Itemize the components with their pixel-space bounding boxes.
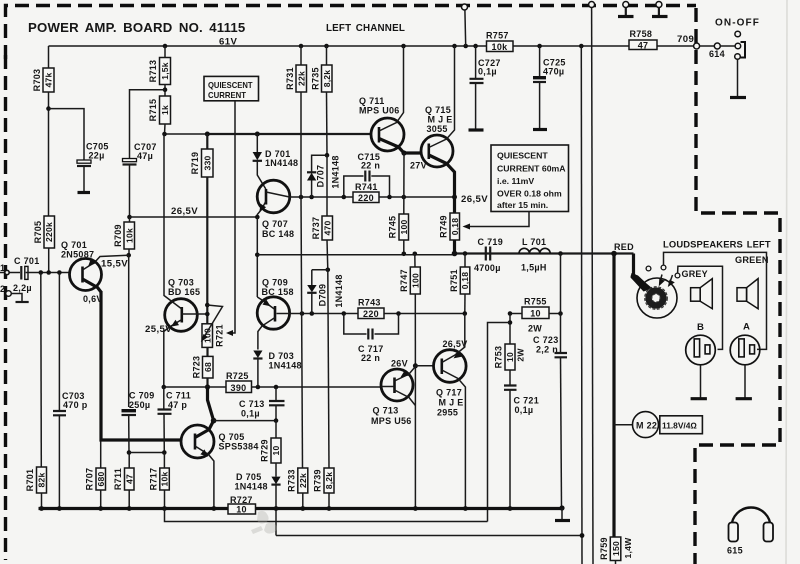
svg-text:R703: R703 <box>32 69 42 92</box>
svg-text:27V: 27V <box>410 161 427 171</box>
svg-text:R717: R717 <box>149 468 159 491</box>
dashed panel divider right <box>695 8 780 564</box>
node R755 right C723 column <box>558 311 563 316</box>
terminal 709 on divider <box>694 43 700 49</box>
transistor Q713 <box>371 367 415 427</box>
node rail C703 <box>57 506 62 511</box>
svg-text:1N4148: 1N4148 <box>334 274 344 307</box>
svg-text:Q 707: Q 707 <box>262 219 288 229</box>
resistor R719 <box>190 134 213 177</box>
node y313 C717 left <box>342 311 347 316</box>
wire emitter node down to R745 <box>403 153 405 214</box>
wire Q709 base y313 <box>277 313 344 315</box>
svg-text:C 701: C 701 <box>14 256 40 266</box>
svg-text:BC 148: BC 148 <box>262 229 294 239</box>
svg-text:C 709: C 709 <box>129 391 155 401</box>
svg-text:D707: D707 <box>316 165 326 188</box>
svg-text:D709: D709 <box>318 284 328 307</box>
svg-text:68: 68 <box>203 362 213 372</box>
capacitor C719 <box>474 237 503 273</box>
connector plug arrow <box>631 273 653 292</box>
diode D703 <box>253 351 302 388</box>
svg-text:2955: 2955 <box>437 408 458 418</box>
svg-text:R725: R725 <box>226 371 249 381</box>
svg-text:390: 390 <box>231 383 247 393</box>
border frame dashed left <box>4 55 7 560</box>
svg-text:Q 709: Q 709 <box>262 278 288 288</box>
svg-text:R713: R713 <box>148 60 158 83</box>
node R703 C705 tap <box>46 106 51 111</box>
resistor R751 <box>449 254 470 314</box>
node y197 C715 left <box>342 195 347 200</box>
svg-text:Q 711: Q 711 <box>359 96 385 106</box>
wire C723 column down <box>560 254 562 353</box>
resistor R709 <box>113 222 135 249</box>
svg-text:8,2k: 8,2k <box>322 70 332 88</box>
svg-text:22 n: 22 n <box>361 161 380 171</box>
svg-text:ON-OFF: ON-OFF <box>715 18 760 29</box>
node C709 R711 bridge <box>127 450 132 455</box>
svg-text:22µ: 22µ <box>89 151 105 161</box>
svg-text:R733: R733 <box>287 469 297 492</box>
capacitor C709 <box>122 391 155 453</box>
node rail top terminal <box>463 44 468 49</box>
svg-text:D 703: D 703 <box>269 351 295 361</box>
capacitor C701 <box>13 256 40 293</box>
svg-text:CURRENT 60mA: CURRENT 60mA <box>497 164 566 174</box>
node output C723 column <box>558 251 563 256</box>
node y313 C717 right <box>396 311 401 316</box>
resistor R743 <box>344 298 465 319</box>
svg-text:R755: R755 <box>524 297 547 307</box>
svg-text:after 15 min.: after 15 min. <box>497 200 548 210</box>
svg-text:R747: R747 <box>399 269 409 292</box>
svg-text:22 n: 22 n <box>361 353 380 363</box>
svg-text:1,4W: 1,4W <box>623 537 633 559</box>
diode D709 <box>307 270 344 314</box>
svg-text:L 701: L 701 <box>522 237 546 247</box>
svg-text:47: 47 <box>124 474 134 484</box>
resistor R701 <box>25 273 47 509</box>
svg-text:LEFT CHANNEL: LEFT CHANNEL <box>326 23 405 34</box>
transistor Q701 <box>61 240 102 292</box>
node y197 D707 <box>309 195 314 200</box>
resistor R735 <box>311 46 333 155</box>
svg-text:1N4148: 1N4148 <box>269 361 302 371</box>
resistor R729 <box>260 421 282 463</box>
svg-text:R701: R701 <box>25 469 35 492</box>
resistor R705 <box>33 216 55 248</box>
svg-text:470: 470 <box>322 221 332 236</box>
node rail Q717 column <box>463 506 468 511</box>
resistor R759 <box>599 537 633 564</box>
node output RED takeoff <box>611 251 617 257</box>
svg-text:150: 150 <box>611 541 621 556</box>
diode D707 <box>307 155 341 197</box>
wire 26,5V to Q707 emitter column <box>130 216 258 218</box>
wire C701 to Q701 base <box>26 272 70 274</box>
wire Q707 emitter column down <box>256 217 258 297</box>
inductor L701 <box>519 237 550 273</box>
svg-text:R751: R751 <box>449 269 459 292</box>
wire emitter node down C709 column <box>128 255 130 407</box>
wire output line y254 <box>257 254 455 255</box>
node R709 Q701 emitter <box>126 253 131 258</box>
node rail R711 <box>127 506 132 511</box>
node R721 wiper tap <box>205 303 210 308</box>
node R723 wire387 thick <box>205 384 210 389</box>
svg-text:470 p: 470 p <box>63 400 88 410</box>
svg-text:11.8V/4Ω: 11.8V/4Ω <box>662 421 697 431</box>
svg-text:1N4148: 1N4148 <box>331 155 341 188</box>
node Q707 emitter 26,5V wire <box>255 215 260 220</box>
svg-text:R737: R737 <box>311 217 321 240</box>
resistor R737 <box>311 155 333 270</box>
wire Q711 emitter to Q715 base thick <box>404 151 421 154</box>
svg-text:2W: 2W <box>516 348 526 362</box>
node Q705 collector bias tap <box>211 418 217 424</box>
node rail R701 <box>39 506 44 511</box>
transistor Q707 <box>257 180 294 239</box>
wire GREY to jack B <box>678 266 723 349</box>
svg-text:615: 615 <box>727 546 743 556</box>
svg-text:Q 713: Q 713 <box>373 406 399 416</box>
svg-text:250µ: 250µ <box>129 400 150 410</box>
svg-text:8,2k: 8,2k <box>324 472 334 490</box>
ground rail end symbol <box>555 505 570 520</box>
svg-text:0,18: 0,18 <box>450 218 460 236</box>
capacitor C715 <box>344 152 390 197</box>
svg-text:R741: R741 <box>355 182 378 192</box>
svg-text:3055: 3055 <box>427 124 448 134</box>
resistor R749 <box>439 213 461 254</box>
wire R713 to R715 <box>164 85 166 97</box>
resistor R707 <box>85 442 106 509</box>
svg-text:26V: 26V <box>391 359 408 369</box>
node rail Q705 emitter <box>212 506 217 511</box>
wire Q713 column to rail <box>414 366 416 509</box>
svg-text:C 721: C 721 <box>514 396 540 406</box>
svg-text:QUIESCENT: QUIESCENT <box>497 151 548 161</box>
svg-text:i.e. 11mV: i.e. 11mV <box>497 176 534 186</box>
wire R709 to emitter node <box>128 249 130 255</box>
node R753 tap to feedback <box>508 320 513 325</box>
wire C705 tap <box>49 109 85 160</box>
svg-text:Q 715: Q 715 <box>425 105 451 115</box>
transistor Q711 <box>359 46 404 153</box>
svg-text:10k: 10k <box>492 42 509 52</box>
svg-text:47k: 47k <box>44 73 54 88</box>
wire terminal to rail <box>464 10 467 46</box>
node input R705 <box>46 270 51 275</box>
node y313 R751 Q717 emitter <box>463 311 468 316</box>
svg-text:100: 100 <box>399 220 409 235</box>
capacitor C713 <box>239 387 285 421</box>
node base line D701 <box>255 132 260 137</box>
wire GREEN to jack A <box>664 252 767 349</box>
svg-text:2,2µ: 2,2µ <box>13 283 32 293</box>
wire base line y134 <box>165 133 208 135</box>
resistor R703 <box>32 68 54 92</box>
wire note pointer to R749 <box>465 212 529 227</box>
wire line2 feedback return y521 <box>165 509 488 522</box>
resistor R721 trimmer <box>201 305 225 347</box>
svg-text:0,1µ: 0,1µ <box>241 409 260 419</box>
box QUIESCENT CURRENT 60mA note <box>491 145 569 212</box>
capacitor C717 <box>344 314 399 364</box>
svg-text:2: 2 <box>0 284 5 294</box>
transistor Q717 <box>434 314 467 509</box>
svg-text:R723: R723 <box>192 356 202 379</box>
svg-text:R709: R709 <box>113 224 123 247</box>
svg-text:1,5k: 1,5k <box>160 62 170 80</box>
svg-text:Q 703: Q 703 <box>168 278 194 288</box>
svg-text:LOUDSPEAKERS LEFT: LOUDSPEAKERS LEFT <box>663 239 771 250</box>
svg-text:0,1µ: 0,1µ <box>515 405 534 415</box>
headphone jack 615 <box>727 508 773 556</box>
node output R751 <box>463 251 468 256</box>
wire Q701 emitter lead <box>95 255 129 262</box>
svg-text:R745: R745 <box>388 216 398 239</box>
pencil smudge artifacts <box>251 511 277 534</box>
svg-text:QUIESCENT: QUIESCENT <box>208 80 253 90</box>
svg-text:R719: R719 <box>190 152 200 175</box>
node output R745 <box>402 252 407 257</box>
svg-text:Q 701: Q 701 <box>61 240 87 250</box>
node rail R713 <box>163 44 168 49</box>
svg-text:OVER 0.18 ohm: OVER 0.18 ohm <box>497 189 562 199</box>
node rail C727 <box>473 44 478 49</box>
svg-text:R743: R743 <box>358 298 381 308</box>
resistor R739 <box>313 468 335 509</box>
capacitor C725 <box>533 46 566 130</box>
wire 709 to 614 <box>700 45 715 47</box>
capacitor C723 <box>533 335 567 507</box>
svg-text:47µ: 47µ <box>137 151 153 161</box>
node y197 R745 column <box>402 195 407 200</box>
svg-text:R757: R757 <box>486 31 509 41</box>
wire rail to R713 <box>164 46 166 58</box>
svg-text:709: 709 <box>677 34 694 45</box>
node output R749 thick <box>452 251 458 257</box>
svg-text:M J E: M J E <box>428 115 453 125</box>
node rail C725 <box>537 44 542 49</box>
node rail D705 <box>274 506 279 511</box>
resistor R733 <box>287 468 309 509</box>
svg-text:R758: R758 <box>630 29 653 39</box>
capacitor C703 <box>53 273 88 509</box>
svg-text:100: 100 <box>411 273 421 288</box>
svg-text:680: 680 <box>96 472 106 487</box>
resistor R727 <box>228 495 256 515</box>
svg-text:R711: R711 <box>113 468 123 490</box>
svg-text:10k: 10k <box>160 472 170 487</box>
node input R701 <box>39 270 44 275</box>
svg-text:CURRENT: CURRENT <box>208 90 247 100</box>
node Q703 base column <box>205 312 210 317</box>
node wire387 C713 <box>274 385 279 390</box>
wire R737 column down to R739 <box>328 270 329 468</box>
wire387 left segment <box>164 386 226 388</box>
svg-text:10: 10 <box>271 446 281 456</box>
node C707 R709 26,5V <box>127 215 132 220</box>
node y197 R749 column <box>452 195 457 200</box>
node output R747 <box>413 252 418 257</box>
resistor R717 <box>149 453 170 509</box>
node rail C721 <box>508 506 513 511</box>
terminal on top border <box>462 4 468 10</box>
capacitor C721 <box>504 386 539 509</box>
capacitor C707 <box>123 142 157 217</box>
speaker icon B <box>691 279 713 309</box>
svg-text:RED: RED <box>614 242 634 252</box>
svg-text:10: 10 <box>530 309 541 319</box>
connector terminal pins <box>646 266 651 271</box>
node rail R735 <box>324 44 329 49</box>
capacitor C711 <box>158 387 192 453</box>
node rail Q713 column <box>413 506 418 511</box>
resistor R715 <box>148 96 171 124</box>
svg-text:1N4148: 1N4148 <box>265 158 298 168</box>
svg-text:Q 705: Q 705 <box>219 432 245 442</box>
wire bridge R711 to R717 <box>129 452 164 454</box>
wire terminal feed down x593 <box>592 8 593 564</box>
wire input from border <box>0 272 20 274</box>
svg-text:R707: R707 <box>85 468 95 491</box>
svg-text:R753: R753 <box>494 346 504 369</box>
svg-text:22k: 22k <box>298 473 308 488</box>
svg-text:10: 10 <box>236 505 247 515</box>
svg-text:4700µ: 4700µ <box>474 263 501 273</box>
resistor R755 <box>510 297 561 334</box>
terminal on border x626 with ground stub <box>618 2 634 17</box>
transistor Q715 <box>421 46 455 213</box>
svg-text:470µ: 470µ <box>543 67 564 77</box>
wire collector line y197 <box>290 196 344 198</box>
svg-text:R749: R749 <box>439 215 449 238</box>
wire rail to terminal 709 <box>657 45 694 47</box>
wire bias tap to C713 bottom <box>214 420 276 422</box>
svg-text:C 723: C 723 <box>533 335 559 345</box>
resistor R741 <box>344 182 455 203</box>
resistor R731 <box>285 46 307 197</box>
svg-text:M J E: M J E <box>439 398 464 408</box>
node emitter column output wire <box>255 253 260 258</box>
svg-text:25,5V: 25,5V <box>145 324 172 335</box>
svg-text:C 713: C 713 <box>239 399 265 409</box>
wire tap to x487 column <box>488 323 511 522</box>
svg-text:26,5V: 26,5V <box>461 194 488 205</box>
svg-text:82k: 82k <box>37 473 47 488</box>
wire 61V feed down x582 <box>580 46 583 564</box>
svg-text:0,1µ: 0,1µ <box>478 67 497 77</box>
jack socket B <box>686 335 716 399</box>
resistor R725 <box>226 371 382 393</box>
resistor R711 <box>113 453 134 509</box>
resistor R758 <box>629 29 657 50</box>
box QUIESCENT CURRENT label <box>204 76 259 100</box>
svg-text:R731: R731 <box>285 67 295 90</box>
node rail R731 <box>299 44 304 49</box>
terminal on border x592 <box>589 2 595 8</box>
node rail R717 line2 <box>162 506 167 511</box>
node Q717 base wire <box>413 363 418 368</box>
svg-text:1k: 1k <box>160 105 170 115</box>
svg-text:GREEN: GREEN <box>735 255 769 265</box>
svg-text:C 711: C 711 <box>166 391 191 401</box>
svg-text:26,5V: 26,5V <box>171 206 198 217</box>
transistor Q705 <box>181 421 259 509</box>
wire thick R723 node to Q705 collector <box>208 387 214 421</box>
resistor R723 <box>192 347 214 387</box>
wire 61V rail <box>49 45 487 47</box>
wire quiescent pointer to R721 <box>228 101 235 333</box>
diode D701 <box>253 134 299 189</box>
node D707 R735 tee <box>325 153 330 158</box>
node C713 bottom R729 <box>274 418 279 423</box>
input terminal 2 grounded <box>0 284 29 302</box>
svg-text:22k: 22k <box>296 71 306 86</box>
svg-text:10k: 10k <box>124 228 134 243</box>
resistor R745 <box>388 214 410 254</box>
wire rail to R703 <box>48 46 50 68</box>
border frame dashed top <box>6 6 697 60</box>
node line3 61V feed <box>580 533 585 538</box>
svg-text:C 719: C 719 <box>478 237 504 247</box>
loudspeaker DIN connector <box>637 275 677 319</box>
resistor R757 <box>486 31 513 52</box>
box 11.8V/4ohm <box>660 416 703 434</box>
svg-text:R715: R715 <box>148 99 158 122</box>
wire R733 column 197 to 468 <box>301 197 303 468</box>
node C711 R717 bridge <box>162 450 167 455</box>
wire junction to C707 <box>130 90 166 158</box>
wire 614 to switch <box>720 45 734 47</box>
svg-text:R721: R721 <box>215 324 225 347</box>
svg-text:1N4148: 1N4148 <box>235 482 268 492</box>
svg-text:10: 10 <box>505 352 515 362</box>
node y313 D709 <box>310 311 315 316</box>
node wire387 D703 <box>256 385 261 390</box>
svg-text:220k: 220k <box>44 222 54 242</box>
svg-text:47: 47 <box>638 40 649 50</box>
diode D705 <box>235 463 281 536</box>
svg-text:R739: R739 <box>313 469 323 492</box>
svg-text:15,5V: 15,5V <box>101 259 128 270</box>
node D709 R737 tee <box>326 268 331 273</box>
node y197 R731 <box>299 195 304 200</box>
wire R705 to input node <box>48 248 50 273</box>
jack socket A <box>730 335 760 399</box>
scan streak artifact <box>786 0 787 564</box>
node rail Q711 collector <box>401 44 406 49</box>
svg-text:R735: R735 <box>311 67 321 90</box>
transistor Q703 <box>164 134 208 387</box>
node R755 left R753 column <box>508 311 513 316</box>
terminal on border x659 with ground stub <box>652 2 668 17</box>
svg-text:A: A <box>743 322 750 333</box>
terminal 614 <box>714 43 720 49</box>
transistor Q709 <box>257 278 294 350</box>
svg-text:0,18: 0,18 <box>460 272 470 290</box>
node R713 R715 junction <box>163 87 168 92</box>
node rail 61V feed down <box>579 44 584 49</box>
wire R709 top <box>129 217 131 222</box>
wire output to connector thick <box>632 254 635 277</box>
node input C703 <box>57 270 62 275</box>
meter M22 <box>614 412 659 438</box>
wire Q701 collector thick down to Q705 base <box>101 291 182 440</box>
